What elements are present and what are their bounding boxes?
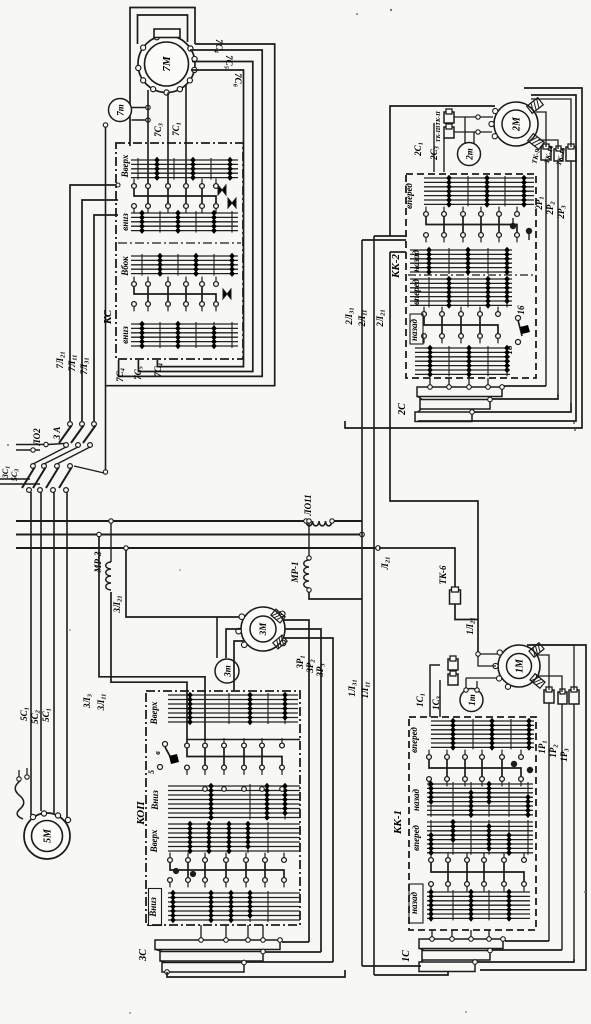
resistor 3C step links	[156, 950, 162, 952]
finger contacts KOP row1	[186, 738, 188, 743]
wires 1M terminals	[480, 653, 498, 655]
svg-text:ТК-6: ТК-6	[438, 565, 448, 585]
motor 5M	[24, 813, 70, 859]
contact grid KK1 row1	[431, 720, 534, 722]
resistor 3C taps	[199, 938, 204, 943]
terminals 7M	[188, 46, 193, 51]
knife switch 5C pole1	[31, 464, 36, 469]
wire 2L21 loop to 1M	[390, 252, 478, 652]
svg-text:КК-2: КК-2	[390, 253, 402, 279]
knife switch 3A pole1	[68, 422, 73, 427]
svg-text:5: 5	[147, 770, 156, 774]
resistor 3C row3	[162, 963, 244, 973]
wire 2L21 stub	[390, 251, 406, 253]
contact tip blob	[511, 761, 517, 767]
junction circles above vniz band	[203, 787, 208, 792]
resistor 1C step links	[420, 949, 424, 951]
wire 5C exits left 1	[0, 478, 30, 480]
contact tip blob	[173, 868, 179, 874]
wire 3M left terminals	[216, 617, 218, 658]
controller KK-2 box	[406, 174, 536, 378]
svg-text:1С: 1С	[401, 950, 412, 962]
knife switch 5C pole3	[55, 464, 60, 469]
bus line L2	[16, 534, 362, 536]
resistor 2C step links	[418, 397, 422, 400]
wire 1L11 bottom to 1C	[374, 972, 448, 975]
finger contacts KC row2	[133, 277, 135, 282]
svg-text:МР-3: МР-3	[93, 551, 103, 573]
motor 7M	[138, 36, 195, 93]
scan specks	[390, 9, 392, 11]
finger contacts KC row1	[133, 179, 135, 184]
resistor 2C row3	[415, 412, 472, 422]
tachogenerator 7T	[109, 99, 132, 122]
resistor 1C row2	[422, 951, 490, 961]
bus line L3	[16, 547, 380, 549]
wire KOP finger rail	[187, 739, 300, 741]
contact grid KK1 row4	[427, 891, 530, 893]
wires 1P into resistors	[505, 940, 549, 942]
wire MP-3 top	[110, 523, 112, 562]
wire 3P ends to resistors	[282, 941, 309, 943]
svg-text:МР-1: МР-1	[290, 562, 300, 584]
finger contacts KK2 row2	[423, 307, 425, 312]
resistor 2C row1	[417, 387, 502, 397]
svg-text:7М: 7М	[161, 55, 173, 72]
tachogenerator 2T	[458, 143, 481, 166]
brush boxes 2M	[527, 98, 544, 114]
finger contacts KK2 row1	[425, 207, 427, 212]
svg-text:5М: 5М	[43, 828, 54, 843]
wire 3C bottom link	[167, 970, 345, 977]
arc chute KC2	[228, 198, 236, 208]
svg-text:3М: 3М	[258, 622, 268, 637]
svg-text:вперед: вперед	[411, 825, 421, 851]
svg-text:КК-1: КК-1	[392, 810, 404, 835]
svg-text:2С: 2С	[397, 403, 408, 416]
wire 1M big loop right	[480, 645, 586, 970]
divider KK-2	[408, 274, 534, 276]
wire 5C down to 5M 3	[53, 492, 55, 813]
thermal contacts TK right 2M	[541, 147, 551, 160]
wire 2M big loop right	[345, 88, 582, 428]
wire 2M loop down	[390, 106, 495, 236]
knife switch 3A pole3	[92, 422, 97, 427]
svg-text:КОП: КОП	[135, 801, 147, 826]
wire KC left exit 1	[70, 185, 118, 421]
contact grid KOP row4	[168, 892, 300, 894]
wires TK to 2M	[536, 112, 546, 147]
relay MP-1 tap	[307, 519, 311, 523]
arc chute KC1	[218, 185, 226, 195]
wire KC left exit 2	[82, 200, 118, 421]
wires 2P down from TK	[545, 160, 547, 386]
divider KC	[118, 242, 241, 244]
contact grid KK2 row4	[415, 347, 510, 349]
wire bus2 branch down to KOP 3L3	[97, 532, 101, 536]
svg-text:ЛО11: ЛО11	[303, 494, 313, 516]
wire 3M right to 3P wires	[284, 620, 309, 942]
svg-text:назад: назад	[409, 891, 419, 914]
thermal contacts TK right 1M	[544, 690, 554, 703]
knife switch 5C pole2	[42, 464, 47, 469]
contact grid KOP row3	[168, 823, 300, 825]
wire 2L11 stub	[374, 235, 406, 237]
limit switch 5-8 contact	[163, 742, 168, 747]
junction MP-3	[109, 519, 113, 523]
wire MP-3 down to KOP 3Ln	[111, 592, 187, 743]
wires 2C1 2C3 down	[433, 123, 435, 172]
svg-text:Вбок: Вбок	[120, 256, 130, 277]
knife switch 5C pole4	[68, 464, 73, 469]
wires 1C down	[430, 665, 440, 717]
svg-text:2М: 2М	[512, 116, 523, 132]
wire 1L11 long vertical	[373, 236, 375, 975]
resistor 2C taps	[428, 385, 433, 390]
contact grid KC row3	[131, 255, 238, 257]
terminals 5M	[30, 814, 35, 819]
motor 1M	[498, 645, 540, 687]
contact grid KC row1	[131, 159, 238, 161]
contact grid KC row2	[131, 212, 238, 214]
thermal contact TK-6	[450, 590, 461, 604]
wire bus3 to TK-6	[379, 548, 455, 590]
svg-text:в: в	[153, 751, 162, 755]
resistor 1C row1	[419, 939, 503, 949]
svg-text:16: 16	[516, 305, 526, 315]
wire 7M right to 7C4	[119, 50, 263, 376]
terminals 1M	[496, 676, 501, 681]
bus line L1 after coil	[334, 520, 362, 522]
wires 1T to 1M	[465, 678, 467, 690]
svg-text:Вверх: Вверх	[120, 154, 130, 178]
resistor 3C row2	[160, 952, 263, 962]
line reactor LOP coil	[306, 521, 332, 526]
wire bus3 branch to 3M feed	[124, 546, 128, 550]
wires 2T 2M to KK-2	[454, 116, 493, 118]
tachogenerator 3T	[215, 659, 239, 683]
brush box of 7M	[154, 29, 180, 38]
wire loop around 7M inner	[138, 15, 188, 44]
wire line stubs LO2	[16, 444, 46, 446]
svg-text:вперед: вперед	[409, 727, 419, 753]
wires TK to 1M	[538, 655, 549, 690]
controller KOP box	[146, 691, 300, 925]
relay coil MP-1	[304, 560, 309, 588]
contact grid KK2 row3	[410, 278, 512, 280]
resistor 2C row2	[420, 400, 490, 410]
controller KK-1 box	[409, 717, 536, 930]
wire loop around 7M outer	[130, 8, 195, 147]
svg-text:вниз: вниз	[120, 213, 130, 231]
svg-text:1М: 1М	[515, 658, 526, 673]
brush wedge 3M	[271, 609, 285, 623]
svg-text:КС: КС	[102, 309, 114, 325]
svg-text:назад: назад	[411, 249, 421, 272]
resistor 1C taps	[430, 937, 435, 942]
wire 7M right to 7C5	[138, 62, 252, 372]
junction	[116, 183, 120, 187]
svg-text:ТК-П: ТК-П	[436, 127, 442, 142]
finger contacts KOP row2	[169, 853, 171, 858]
svg-text:1т: 1т	[467, 694, 477, 706]
motor 3M	[241, 607, 285, 651]
wire 7M bottom terminals down	[147, 90, 149, 183]
svg-text:Вниз: Вниз	[150, 790, 160, 811]
contact grid KC row4	[131, 323, 238, 325]
arc chute KC3	[223, 289, 231, 299]
resistor 3C row1	[155, 940, 280, 950]
junction LO2	[44, 442, 48, 446]
wire KC left exit 3	[94, 215, 118, 421]
brush wedges 1M	[529, 643, 544, 657]
svg-text:назад: назад	[411, 788, 421, 811]
svg-text:ЗС: ЗС	[138, 949, 149, 962]
contact tip blob	[510, 223, 516, 229]
svg-text:3т: 3т	[223, 665, 233, 678]
contact grid KK2 row1	[424, 177, 534, 179]
tachogenerator 1T	[460, 689, 483, 712]
wires 1P down from TK	[548, 703, 550, 941]
wire 1L31 bottom to 1C	[362, 965, 421, 967]
svg-text:7т: 7т	[116, 104, 126, 116]
wire 7M right to 7C6	[157, 70, 243, 367]
wire 5C down to 5M 2	[40, 492, 42, 811]
contact 16-18	[516, 316, 521, 321]
wires 3A to 5C switch	[33, 447, 66, 464]
contact grid KK2 row2	[410, 249, 512, 251]
wire outer wrap loop	[106, 44, 275, 386]
cable loop to hook	[15, 781, 24, 819]
thermal boxes TK-P 2M	[444, 112, 454, 123]
svg-text:Вверх: Вверх	[149, 829, 159, 853]
finger contacts KK1 row1	[428, 750, 430, 755]
wire MP-1 to 1L line	[309, 592, 362, 599]
wire 5C down to 5M 1	[30, 492, 32, 815]
wire 1L31 long vertical	[361, 240, 363, 966]
svg-text:ЛО2: ЛО2	[32, 428, 42, 447]
knife switch 3A pole2	[80, 422, 85, 427]
wire 4th switch pole down	[66, 492, 68, 818]
contact grid KOP row1	[168, 694, 298, 696]
wire 5C exits left 2	[0, 483, 40, 485]
contact grid KOP row2	[168, 785, 300, 787]
svg-text:2т: 2т	[465, 148, 475, 161]
finger contacts KK1 row2	[430, 853, 432, 858]
svg-text:ЗТК-П: ЗТК-П	[436, 111, 442, 130]
contact grid KK1 row2	[427, 783, 533, 785]
wire TK-6 down to 1M	[455, 604, 478, 620]
terminals 2M	[492, 134, 497, 139]
bus line L1	[16, 520, 306, 522]
wires 2P into resistors	[504, 385, 546, 387]
junction 1L21	[476, 652, 480, 656]
controller KC box	[116, 143, 243, 359]
svg-text:вперед: вперед	[404, 183, 414, 209]
resistor 1C row3	[419, 962, 475, 972]
wires 7T to motor	[132, 107, 149, 109]
svg-text:Вниз: Вниз	[148, 897, 158, 918]
wire 7T down to switch	[105, 125, 107, 470]
wire 7T line to 5C	[103, 470, 107, 474]
contact grid KK1 row3	[427, 821, 533, 823]
motor 2M	[494, 102, 538, 146]
svg-text:З А: З А	[52, 427, 62, 441]
svg-text:вниз: вниз	[120, 326, 130, 344]
wire 2L31 stub	[362, 239, 406, 241]
thermal boxes TK-P 1M	[448, 659, 458, 670]
svg-text:Вверх: Вверх	[149, 701, 159, 725]
relay coil MP-3	[106, 562, 111, 590]
